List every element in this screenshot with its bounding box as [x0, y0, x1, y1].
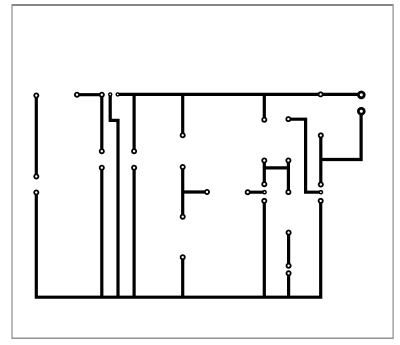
wire W15 top-bus drop x=264	[263, 94, 266, 119]
pad P3	[34, 190, 38, 194]
wire W10 bus riser x=134	[133, 168, 136, 297]
wire W1 left column top vertical	[35, 96, 38, 177]
wire W7 jogged riser	[110, 94, 118, 297]
pad P29	[319, 133, 323, 137]
board outline frame right	[392, 4, 394, 338]
wire W18 H crossbar	[264, 166, 288, 169]
board outline frame top	[11, 4, 393, 6]
wire W24 right vertical x=321	[319, 135, 322, 184]
pad P31 small	[319, 191, 322, 194]
pad P15	[181, 215, 185, 219]
pad P11	[132, 166, 136, 170]
pad P13	[181, 165, 185, 169]
pad P19	[262, 158, 266, 162]
pad P32	[319, 199, 323, 203]
wire W8 top bus	[118, 93, 362, 96]
pad P26	[287, 231, 291, 235]
wire W16 H left vertical	[263, 161, 266, 185]
pad P7 small	[116, 93, 119, 96]
wire W20 bus riser x=264	[263, 201, 266, 297]
wire W4 bus riser x=102	[100, 168, 103, 297]
wire W9 top-bus drop x=134	[133, 94, 136, 151]
pad P27	[287, 264, 291, 268]
wire W17 H right vertical	[287, 161, 290, 193]
pad P28	[287, 271, 291, 275]
wire W6 short horizontal top-left	[77, 93, 102, 96]
pad P20	[286, 158, 290, 162]
pad P33 on top bus	[319, 92, 323, 96]
wire W2 left column down, bottom ground bus, right riser up	[36, 193, 320, 298]
wire W21 pad-to-pad vertical x=288	[287, 233, 290, 266]
pad P4	[75, 93, 79, 97]
pad P25	[286, 190, 290, 194]
pad P10	[132, 149, 136, 153]
wire W12 T vertical	[181, 167, 184, 217]
pad P9	[100, 166, 104, 170]
pad P22	[246, 190, 250, 194]
pad P34 big	[358, 92, 364, 98]
pad P21	[262, 182, 266, 186]
wire W25 right hook to big pad	[321, 111, 361, 159]
wire W5 pad-to-pad vertical x=102	[100, 95, 103, 152]
pad P16	[181, 255, 185, 259]
pad P12	[181, 133, 185, 137]
wire W19 short horizontal pad link	[248, 191, 265, 194]
pad P14	[205, 190, 209, 194]
pad P1	[34, 93, 38, 97]
pad P6 small	[109, 93, 112, 96]
pad P35 big	[358, 108, 364, 114]
wire W11 top-bus drop x=183	[181, 94, 184, 135]
pad P24	[262, 199, 266, 203]
wire W22 bus riser x=288	[287, 273, 290, 297]
board outline frame bottom	[11, 337, 393, 339]
wire W13 T branch	[183, 190, 207, 193]
pad P2	[34, 174, 38, 178]
pad P5	[100, 93, 104, 97]
pad P23 small	[263, 191, 266, 194]
pad P18	[286, 117, 290, 121]
pad P30	[319, 182, 323, 186]
wire W14 bus riser x=183	[181, 257, 184, 297]
board outline frame left	[11, 4, 13, 338]
pad P8	[100, 149, 104, 153]
pad P17	[262, 118, 266, 122]
wire W23 Z-shaped trace	[288, 119, 321, 192]
